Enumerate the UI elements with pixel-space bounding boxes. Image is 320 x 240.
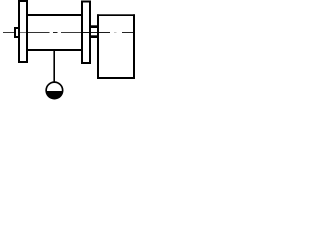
wire centerline through right flange [83,32,89,33]
right flange plate [81,1,91,65]
wire centerline through left flange [20,32,26,33]
left flange plate [18,0,28,63]
gearbox box [97,14,135,79]
drum body bottom edge [28,49,81,51]
wire centerline dash to box wall [122,32,133,33]
wire centerline dash C [61,32,81,33]
wire centerline dash A [28,32,50,33]
drum body top edge [28,14,81,16]
wire weight hanger line [53,51,55,83]
wire shaft axis into box [91,32,110,33]
wire centerline faint dash in box [114,32,117,33]
node weight ball [45,81,63,99]
shaft coupling bottom line [89,35,99,38]
shaft coupling top line [89,25,99,28]
wire centerline dash B [53,32,58,33]
node shaft-end stub [14,27,20,38]
wire centerline left tail [3,32,14,33]
